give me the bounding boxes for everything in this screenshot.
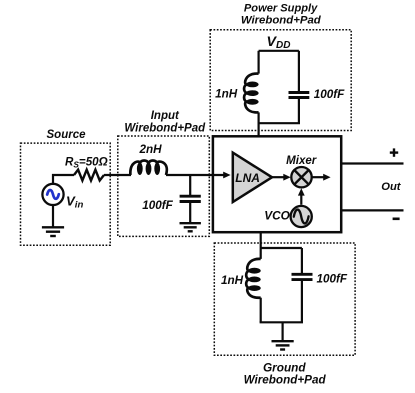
- amplifier U1 LNA: [233, 153, 272, 202]
- ground (input): [180, 223, 201, 231]
- label Ground: [263, 361, 306, 375]
- label 1nH (ground): [221, 274, 244, 287]
- resistor RS 50ohm: [74, 170, 104, 181]
- inductor L3 1nH (ground): [246, 259, 261, 298]
- ground (ground pad): [272, 341, 294, 349]
- inductor L1 1nH (power supply): [244, 74, 259, 113]
- label 100fF (ground): [317, 272, 348, 285]
- plus sign: [390, 148, 398, 156]
- svg-text:Wirebond+Pad: Wirebond+Pad: [124, 122, 206, 134]
- sine wave inside VCO: [294, 210, 309, 224]
- wire to ground symbol: [282, 322, 284, 341]
- label 2nH: [139, 143, 163, 156]
- svg-text:Wirebond+Pad: Wirebond+Pad: [244, 374, 327, 387]
- label Input: [151, 110, 180, 122]
- sine wave inside Vin (blue): [47, 190, 59, 199]
- svg-text:VCO: VCO: [264, 209, 290, 223]
- wire VCO to mixer arrow: [300, 194, 302, 205]
- label Mixer: [286, 155, 317, 167]
- minus sign: [393, 218, 400, 221]
- wire left vertical to L1: [258, 51, 260, 74]
- capacitor C2 100fF (input): [180, 196, 201, 201]
- svg-text:Input: Input: [151, 110, 180, 122]
- ground wirebond+pad dashed box: [214, 243, 355, 355]
- label 1nH (power supply): [215, 88, 238, 101]
- label Wirebond+Pad (ground): [244, 374, 327, 387]
- wire C2 to ground: [189, 203, 191, 223]
- wire loop bottom horizontal: [258, 122, 301, 124]
- label Wirebond+Pad (input): [124, 122, 206, 134]
- svg-text:Vin: Vin: [66, 193, 83, 210]
- source dashed box: [21, 143, 111, 245]
- wire VDD top horizontal: [259, 50, 299, 52]
- label Power Supply: [244, 2, 318, 14]
- label Out: [381, 181, 402, 193]
- svg-text:100fF: 100fF: [142, 199, 173, 212]
- svg-text:Power Supply: Power Supply: [244, 2, 318, 14]
- input wirebond+pad dashed box: [118, 136, 210, 236]
- power supply wirebond+pad dashed box: [210, 30, 351, 131]
- wire ground loop bottom horizontal: [260, 321, 303, 323]
- ground (source): [42, 227, 64, 236]
- svg-text:Mixer: Mixer: [286, 155, 317, 167]
- svg-text:VDD: VDD: [267, 34, 291, 51]
- wire C2 branch: [189, 175, 191, 195]
- mixer U2: [291, 167, 311, 187]
- mixer X diagonals: [294, 170, 308, 184]
- wire output plus: [341, 162, 403, 164]
- arrowhead VCO to mixer: [298, 188, 305, 195]
- RF front-end block box: [213, 136, 341, 232]
- capacitor C1 100fF (power supply): [289, 93, 310, 98]
- wire RF block to ground pad: [260, 232, 262, 248]
- wire resistor to input pad: [104, 174, 131, 176]
- node VDD label: [267, 34, 291, 51]
- wire ground loop top horizontal: [261, 247, 302, 249]
- label Vin: [66, 193, 83, 210]
- label VCO: [264, 209, 290, 223]
- svg-text:Out: Out: [381, 181, 402, 193]
- wire Vin to ground: [52, 205, 54, 227]
- source Vin AC source: [42, 184, 63, 205]
- svg-text:100fF: 100fF: [317, 272, 348, 285]
- svg-text:LNA: LNA: [235, 171, 260, 185]
- label 100fF (input): [142, 199, 173, 212]
- wire right vertical to C1: [298, 51, 300, 91]
- label RS=50ohm: [65, 156, 108, 170]
- wire power supply to RF block: [258, 123, 260, 137]
- svg-text:Source: Source: [47, 129, 87, 141]
- svg-text:1nH: 1nH: [215, 88, 238, 101]
- label 100fF (power supply): [314, 88, 345, 101]
- label LNA: [235, 171, 260, 185]
- svg-text:Wirebond+Pad: Wirebond+Pad: [241, 14, 322, 26]
- svg-text:2nH: 2nH: [139, 143, 163, 156]
- arrowhead into LNA: [223, 172, 230, 179]
- wire LNA to mixer: [272, 176, 284, 178]
- arrowhead into mixer: [283, 174, 290, 181]
- wire C1 bottom vertical: [298, 99, 300, 123]
- wire L2 to LNA with junction: [166, 174, 224, 176]
- svg-text:100fF: 100fF: [314, 88, 345, 101]
- label Wirebond+Pad (power supply): [241, 14, 322, 26]
- wire C3 bottom: [301, 281, 303, 322]
- label Source: [47, 129, 87, 141]
- wire output minus: [341, 209, 403, 211]
- wire right vertical to C3: [301, 248, 303, 273]
- arrowhead mixer output: [323, 174, 330, 181]
- wire Vin to resistor: [53, 175, 74, 184]
- svg-text:1nH: 1nH: [221, 274, 244, 287]
- wire mixer output arrow: [312, 176, 324, 178]
- capacitor C3 100fF (ground): [292, 274, 313, 279]
- inductor L2 2nH (input): [130, 160, 166, 175]
- oscillator U3 VCO: [291, 206, 312, 227]
- wire L1 bottom to loop bottom: [258, 112, 260, 123]
- svg-text:Ground: Ground: [263, 361, 306, 375]
- wire left vertical to L3: [260, 248, 262, 259]
- wire L3 bottom: [260, 298, 262, 323]
